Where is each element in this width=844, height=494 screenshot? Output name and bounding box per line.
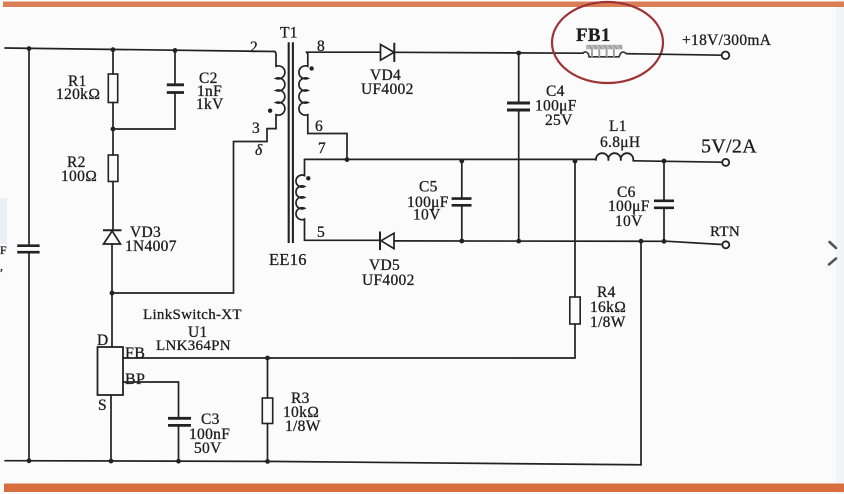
svg-text:,: , — [0, 259, 3, 273]
svg-text:EE16: EE16 — [269, 250, 307, 269]
node C2 top junction — [173, 48, 178, 53]
node VD3 / U1 drain junction — [110, 291, 115, 296]
capacitor C1 (left edge, label cut off) — [0, 243, 40, 273]
wire L1 to 5V terminal — [633, 161, 722, 162]
wire feedback line R4 to U1 FB — [124, 357, 576, 359]
wire U1 BP to C3 — [124, 382, 179, 417]
svg-text:RTN: RTN — [710, 224, 740, 240]
svg-text:LNK364PN: LNK364PN — [156, 338, 231, 354]
svg-text:1/8W: 1/8W — [285, 418, 321, 435]
svg-text:UF4002: UF4002 — [361, 81, 414, 98]
resistor R3 — [262, 358, 320, 464]
svg-text:5: 5 — [317, 224, 325, 241]
wire bottom ground bus — [5, 461, 641, 465]
node R1-C2 bottom junction — [111, 127, 116, 132]
svg-text:1kV: 1kV — [196, 96, 224, 113]
diode VD5 UF4002 — [362, 232, 415, 290]
svg-text:T1: T1 — [280, 25, 298, 42]
svg-text:7: 7 — [318, 140, 326, 157]
node S pin ground junction — [109, 459, 114, 464]
terminal +18V/300mA — [682, 32, 772, 59]
node R1 top junction — [111, 47, 116, 52]
node pin6/pin7 junction — [345, 157, 350, 162]
transformer T1 secondary winding bottom (pins 7-5) — [296, 140, 326, 241]
svg-text:120kΩ: 120kΩ — [56, 86, 100, 103]
transformer T1 secondary winding top (pins 8-6) — [299, 38, 347, 159]
terminal RTN — [710, 224, 740, 248]
inductor L1 6.8uH — [596, 118, 640, 161]
svg-text:1/8W: 1/8W — [590, 314, 626, 331]
wire pin 5 stub — [305, 239, 380, 241]
svg-text:F: F — [0, 243, 7, 257]
transformer T1 core — [280, 25, 298, 244]
svg-text:6: 6 — [315, 118, 323, 135]
terminal 5V/2A — [701, 136, 757, 166]
diode VD4 UF4002 — [361, 43, 414, 98]
svg-text:1N4007: 1N4007 — [125, 238, 177, 255]
capacitor C2 — [167, 50, 224, 129]
wire U1 source to ground bus — [110, 395, 112, 461]
svg-text:25V: 25V — [545, 112, 573, 129]
node C4 top junction — [516, 51, 521, 56]
svg-text:50V: 50V — [194, 440, 222, 457]
svg-text:δ: δ — [255, 142, 263, 159]
IC U1 LNK364PN LinkSwitch-XT — [97, 293, 242, 414]
svg-text:100Ω: 100Ω — [61, 168, 97, 185]
svg-text:+18V/300mA: +18V/300mA — [682, 32, 772, 49]
resistor R1 — [56, 50, 118, 129]
svg-text:C5: C5 — [419, 179, 438, 196]
wire VD4 to ferrite bead — [395, 51, 583, 54]
svg-text:FB1: FB1 — [576, 25, 611, 46]
svg-text:FB: FB — [125, 345, 145, 362]
wire primary return to pin 3 — [112, 129, 267, 293]
wire pin 8 rail to VD4 — [307, 51, 381, 53]
svg-text:D: D — [97, 332, 109, 349]
node left ground junction — [27, 458, 32, 463]
ferrite bead FB1 — [576, 25, 627, 57]
node top-left junction — [27, 46, 32, 51]
svg-text:10V: 10V — [615, 213, 643, 230]
capacitor C3 — [168, 411, 230, 464]
transformer T1 primary winding (pins 2-3) — [250, 39, 285, 137]
wire RTN drop to ground bus — [640, 241, 642, 465]
svg-text:UF4002: UF4002 — [362, 272, 415, 289]
svg-text:10V: 10V — [413, 207, 441, 224]
svg-text:3: 3 — [252, 120, 260, 137]
capacitor C4 — [507, 53, 577, 244]
svg-text:5V/2A: 5V/2A — [701, 136, 757, 158]
node bottom return junction — [639, 239, 644, 244]
resistor R4 — [570, 159, 627, 358]
capacitor C5 — [407, 159, 472, 244]
carousel next chevron — [829, 242, 836, 265]
resistor R2 — [61, 129, 118, 230]
red highlight ellipse around FB1 — [552, 2, 663, 83]
svg-text:S: S — [98, 397, 107, 414]
capacitor C6 — [608, 159, 674, 244]
node FB / R3 junction — [265, 356, 270, 361]
diode VD3 1N4007 — [103, 224, 177, 293]
wire top-left rail — [5, 48, 275, 52]
svg-text:L1: L1 — [609, 118, 627, 135]
wire 5V rail — [305, 158, 597, 160]
svg-text:BP: BP — [125, 371, 145, 388]
wire R1 bottom to C2 bottom — [113, 128, 175, 130]
wire RTN rail — [394, 241, 722, 245]
wire left vertical bus — [28, 49, 30, 244]
svg-text:LinkSwitch-XT: LinkSwitch-XT — [143, 307, 242, 323]
svg-text:2: 2 — [250, 39, 258, 56]
wire ferrite bead to +18V terminal — [627, 54, 722, 56]
svg-text:6.8μH: 6.8μH — [600, 134, 640, 151]
